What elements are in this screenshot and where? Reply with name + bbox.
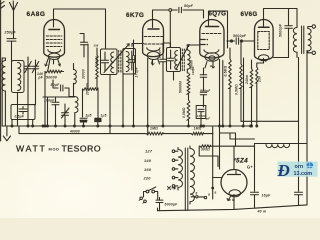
- svg-text:50000: 50000: [46, 76, 57, 80]
- svg-text:30000: 30000: [82, 69, 86, 79]
- svg-text:5000pF: 5000pF: [233, 34, 247, 38]
- svg-text:MOD: MOD: [49, 147, 60, 152]
- svg-text:orn: orn: [295, 164, 304, 170]
- svg-text:500μF: 500μF: [200, 89, 211, 93]
- svg-text:G+: G+: [247, 165, 253, 170]
- svg-text:200000: 200000: [86, 83, 90, 96]
- svg-text:250pF: 250pF: [4, 31, 17, 35]
- svg-text:500000: 500000: [179, 81, 183, 93]
- svg-text:10000: 10000: [197, 114, 206, 118]
- svg-text:pF: pF: [205, 117, 210, 121]
- svg-text:a: a: [208, 193, 210, 197]
- svg-text:250: 250: [258, 76, 262, 83]
- svg-text:0,5MΩ: 0,5MΩ: [224, 65, 228, 76]
- svg-text:50μF: 50μF: [51, 83, 61, 87]
- svg-text:140: 140: [144, 158, 152, 163]
- svg-text:WATT: WATT: [16, 144, 47, 154]
- svg-text:16μF: 16μF: [262, 194, 272, 198]
- svg-text:50pF: 50pF: [184, 4, 194, 8]
- svg-text:0,5MΩ: 0,5MΩ: [182, 107, 186, 118]
- svg-text:Ð: Ð: [277, 161, 290, 180]
- svg-text:240m: 240m: [245, 75, 249, 85]
- svg-text:2μ5: 2μ5: [85, 114, 92, 118]
- svg-text:0,5μF: 0,5μF: [15, 115, 25, 119]
- svg-text:6Q7G: 6Q7G: [209, 11, 227, 18]
- svg-text:100pF: 100pF: [157, 49, 161, 58]
- svg-text:μ: μ: [209, 64, 212, 68]
- svg-text:³5Z4: ³5Z4: [234, 158, 249, 165]
- svg-text:k: k: [265, 59, 267, 63]
- svg-text:1μ5: 1μ5: [101, 114, 107, 118]
- svg-text:300Ω: 300Ω: [201, 148, 210, 152]
- svg-text:8: 8: [196, 192, 198, 196]
- svg-text:40000: 40000: [69, 129, 80, 133]
- svg-text:1MΩ: 1MΩ: [194, 127, 202, 131]
- svg-text:TESORO: TESORO: [62, 144, 102, 154]
- svg-text:pF: pF: [38, 76, 44, 80]
- svg-text:100pF: 100pF: [191, 66, 195, 75]
- svg-text:13.com: 13.com: [294, 171, 313, 177]
- svg-text:5000pF: 5000pF: [279, 23, 283, 37]
- svg-text:a: a: [215, 191, 217, 195]
- svg-text:k: k: [151, 60, 153, 64]
- svg-text:6A8G: 6A8G: [27, 11, 46, 18]
- svg-text:6K7G: 6K7G: [126, 12, 144, 19]
- svg-text:0,5MΩ: 0,5MΩ: [235, 84, 239, 95]
- svg-text:1MΩ: 1MΩ: [150, 127, 158, 131]
- svg-text:127: 127: [145, 149, 153, 154]
- svg-text:34000: 34000: [95, 56, 99, 66]
- svg-text:100μF: 100μF: [44, 99, 55, 103]
- svg-text:40 m: 40 m: [257, 210, 267, 214]
- svg-text:175pF: 175pF: [135, 66, 139, 77]
- svg-text:160: 160: [144, 167, 152, 172]
- svg-text:220: 220: [143, 176, 152, 181]
- svg-text:6V6G: 6V6G: [241, 11, 258, 18]
- svg-text:5000pF: 5000pF: [165, 203, 179, 207]
